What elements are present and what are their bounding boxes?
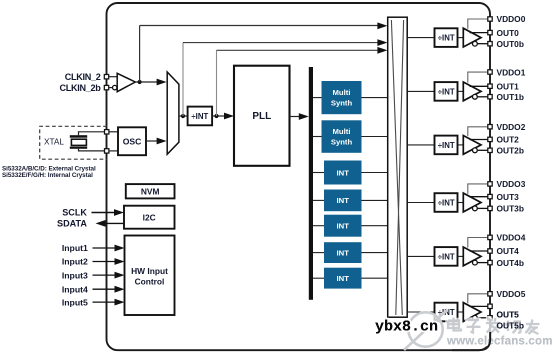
arrowhead into distribution bar <box>299 113 309 120</box>
wire bus bar to Multi Synth 2 <box>313 136 322 138</box>
oscillator OSC box <box>118 127 146 155</box>
wire bus bar to Multi Synth 1 <box>313 97 322 99</box>
wire crossbar to output divider 3 <box>407 202 434 204</box>
pin XB <box>105 149 109 153</box>
svg-text:Input5: Input5 <box>62 297 88 307</box>
svg-text:I2C: I2C <box>143 213 156 223</box>
output divider ÷INT 3 <box>435 193 458 212</box>
wire bus bar to INT divider 4 <box>313 252 324 254</box>
crystal Y1 body <box>71 139 86 145</box>
bubble inverted output OUT4b <box>473 260 478 265</box>
arrowhead Input3 <box>115 272 125 279</box>
watermark elecfans logo slash <box>404 310 448 351</box>
synthesizer block INT divider 3 <box>324 215 362 237</box>
output divider ÷INT 0 <box>435 28 458 47</box>
wire Input5 into HW Input Control <box>93 301 117 303</box>
wire divider 0 to driver <box>458 37 464 39</box>
arrowhead Input4 <box>115 286 125 293</box>
svg-text:INT: INT <box>337 196 350 205</box>
wire Input3 into HW Input Control <box>93 274 117 276</box>
svg-text:ybx8.cn: ybx8.cn <box>375 319 438 336</box>
output driver Q0 triangle <box>463 28 481 47</box>
wire feedback line 2 vertical <box>182 43 184 116</box>
arrowhead into mux input 1 <box>157 79 167 86</box>
pin VDDO2 <box>488 125 492 129</box>
pin OUT1 <box>488 84 492 88</box>
pin OUT4b <box>488 260 492 264</box>
wire bus bar to INT divider 5 <box>313 277 324 279</box>
XTAL dashed enclosure <box>40 126 107 159</box>
NVM box <box>126 184 175 198</box>
wire Multi Synth 2 to crossbar <box>362 136 388 138</box>
svg-text:INT: INT <box>337 222 350 231</box>
crystal Y1 bottom plate <box>70 147 87 149</box>
wire OUT0 <box>470 32 489 34</box>
svg-text:VDDO4: VDDO4 <box>497 233 526 243</box>
watermark elecfans logo circle <box>408 312 442 346</box>
output driver Q1 triangle <box>463 82 481 101</box>
pin VDDO0 <box>488 17 492 21</box>
svg-text:NVM: NVM <box>141 187 160 197</box>
svg-text:HW Input: HW Input <box>131 266 168 276</box>
pin OUT1b <box>488 95 492 99</box>
svg-text:÷INT: ÷INT <box>438 34 455 43</box>
output divider ÷INT 5 <box>435 303 458 322</box>
arrowhead line 2 into crossbar <box>377 39 387 46</box>
wire VDDO4 supply to driver <box>468 238 488 248</box>
crystal Y1 top plate <box>70 135 87 138</box>
wire OUT2 <box>470 139 489 141</box>
wire mux output to divider <box>179 115 188 117</box>
svg-text:XTAL: XTAL <box>44 137 64 146</box>
wire divider output to PLL <box>212 115 226 117</box>
svg-text:÷INT: ÷INT <box>438 252 455 261</box>
junction node divider output <box>214 114 218 118</box>
svg-text:OUT5b: OUT5b <box>497 321 524 331</box>
synthesizer block Multi Synth 2 <box>322 120 362 153</box>
svg-text:OUT1b: OUT1b <box>497 92 524 102</box>
wire bus bar to INT divider 1 <box>313 172 324 174</box>
pin CLKIN_2 <box>104 75 108 79</box>
arrowhead line 3 into crossbar <box>377 47 387 54</box>
arrowhead line 1 into crossbar <box>377 22 387 29</box>
svg-text:VDDO1: VDDO1 <box>497 67 526 77</box>
svg-text:Synth: Synth <box>331 99 353 108</box>
svg-text:VDDO3: VDDO3 <box>497 179 526 189</box>
svg-text:Synth: Synth <box>331 137 353 146</box>
wire Multi Synth 1 to crossbar <box>362 97 388 99</box>
svg-text:CLKIN_2: CLKIN_2 <box>65 72 101 82</box>
bubble inverted output OUT5b <box>473 315 478 320</box>
svg-text:Input2: Input2 <box>62 257 88 267</box>
wire VDDO5 supply to driver <box>468 294 488 303</box>
pin XA <box>105 130 109 134</box>
svg-text:SDATA: SDATA <box>57 219 87 229</box>
arrowhead SDATA <box>96 220 106 227</box>
output driver Q3 triangle <box>463 193 481 212</box>
wire feedback line 3 vertical <box>216 50 218 116</box>
wire crossbar to output divider 4 <box>407 255 434 257</box>
wire Input2 into HW Input Control <box>93 261 117 263</box>
wire crossbar to output divider 0 <box>407 37 434 39</box>
output divider ÷INT 1 <box>435 82 458 101</box>
svg-text:OUT0b: OUT0b <box>497 39 524 49</box>
bubble inverted output OUT1b <box>473 94 478 99</box>
wire INT divider 4 to crossbar <box>362 252 388 254</box>
wire Input1 into HW Input Control <box>93 247 117 249</box>
svg-text:OUT3b: OUT3b <box>497 204 524 214</box>
wire crystal bottom to pin <box>79 149 106 151</box>
crossbar switch matrix <box>388 17 408 317</box>
wire OUT4 <box>470 250 489 252</box>
svg-text:OUT2b: OUT2b <box>497 146 524 156</box>
pin OUT0b <box>488 42 492 46</box>
pin OUT3b <box>488 206 492 210</box>
svg-text:SCLK: SCLK <box>62 208 87 218</box>
svg-text:OUT0: OUT0 <box>497 28 520 38</box>
wire OSC output to mux <box>146 140 158 142</box>
I2C box <box>124 206 175 229</box>
svg-text:VDDO5: VDDO5 <box>497 289 526 299</box>
wire bus bar to INT divider 2 <box>313 199 324 201</box>
bubble inverted output OUT3b <box>473 206 478 211</box>
watermark CJK glyphs halo <box>448 318 540 335</box>
arrowhead Input2 <box>115 258 125 265</box>
pin OUT0 <box>488 30 492 34</box>
synthesizer block INT divider 1 <box>324 161 362 185</box>
arrowhead SCLK <box>114 209 124 216</box>
svg-text:CLKIN_2b: CLKIN_2b <box>59 83 101 93</box>
wire OUT5b <box>477 317 488 319</box>
crossbar diagonal A <box>391 20 402 315</box>
input mux M1 <box>167 72 179 154</box>
bubble inverted output OUT0b <box>473 41 478 46</box>
pin OUT2b <box>488 148 492 152</box>
wire divider 5 to driver <box>458 311 464 313</box>
output driver Q5 triangle <box>463 303 481 322</box>
input buffer U1 inverting-input bubble <box>113 85 117 89</box>
arrowhead into mux input 2 <box>157 138 167 145</box>
wire OUT1b <box>477 96 488 98</box>
svg-text:÷INT: ÷INT <box>438 198 455 207</box>
chip boundary Si5332 <box>107 3 491 350</box>
wire VDDO3 supply to driver <box>468 184 488 194</box>
wire CLKIN_2b to buffer bubble <box>109 87 113 89</box>
wire SCLK into I2C <box>92 212 116 214</box>
svg-text:Multi: Multi <box>333 127 351 136</box>
wire PLL output to distribution bar <box>290 116 301 118</box>
wire feedback line 2 horizontal <box>183 42 380 44</box>
pin VDDO3 <box>488 182 492 186</box>
svg-text:OUT5: OUT5 <box>497 310 520 320</box>
wire OUT4b <box>477 262 488 264</box>
watermark CJK glyphs 电子发烧友 <box>448 318 540 335</box>
svg-text:INT: INT <box>337 274 350 283</box>
svg-text:OUT1: OUT1 <box>497 82 520 92</box>
wire OUT3 <box>470 196 489 198</box>
svg-text:÷INT: ÷INT <box>438 87 455 96</box>
wire buffer output to mux <box>135 81 158 83</box>
input buffer U1 triangle <box>117 73 135 91</box>
svg-text:Control: Control <box>135 277 165 287</box>
svg-text:Input1: Input1 <box>62 243 88 253</box>
arrowhead Input5 <box>115 299 125 306</box>
svg-text:OUT4b: OUT4b <box>497 258 524 268</box>
wire divider 4 to driver <box>458 255 464 257</box>
PLL U3 box <box>234 66 290 166</box>
synthesizer block INT divider 4 <box>324 242 362 263</box>
wire OUT0b <box>477 43 488 45</box>
wire divider 2 to driver <box>458 144 464 146</box>
wire VDDO0 supply to driver <box>468 19 488 29</box>
crossbar diagonal B <box>396 20 404 315</box>
wire pin XB to OSC <box>109 150 118 152</box>
wire CLKIN_2 to buffer <box>109 76 117 78</box>
svg-text:VDDO0: VDDO0 <box>497 14 526 24</box>
svg-text:INT: INT <box>337 248 350 257</box>
svg-text:Si5332E/F/G/H: Internal Crysta: Si5332E/F/G/H: Internal Crystal <box>2 172 93 179</box>
wire Input4 into HW Input Control <box>93 288 117 290</box>
distribution bus bar <box>309 67 313 300</box>
svg-text:PLL: PLL <box>252 111 271 122</box>
wire divider 1 to driver <box>458 90 464 92</box>
arrowhead into PLL <box>224 113 234 120</box>
synthesizer block Multi Synth 1 <box>322 81 362 114</box>
divider U2 ÷INT box <box>188 107 213 126</box>
arrowhead Input1 <box>115 245 125 252</box>
svg-text:÷INT: ÷INT <box>191 112 208 121</box>
junction buffer output node <box>138 80 142 84</box>
HW Input Control box <box>125 236 175 316</box>
wire feedback line 1 horizontal <box>140 25 380 27</box>
output driver Q4 triangle <box>463 247 481 266</box>
svg-text:OUT3: OUT3 <box>497 192 520 202</box>
wire VDDO1 supply to driver <box>468 72 488 83</box>
wire feedback line 1 vertical (buffer to crossbar) <box>139 26 141 83</box>
wire INT divider 3 to crossbar <box>362 225 388 227</box>
svg-text:÷INT: ÷INT <box>438 141 455 150</box>
pin VDDO4 <box>488 235 492 239</box>
synthesizer block INT divider 5 <box>324 268 362 289</box>
wire VDDO2 supply to driver <box>468 127 488 136</box>
pin VDDO5 <box>488 292 492 296</box>
wire INT divider 2 to crossbar <box>362 199 388 201</box>
svg-text:www.elecfans.com: www.elecfans.com <box>446 336 553 348</box>
wire crystal top to pin <box>79 132 106 135</box>
pin OUT5b <box>488 316 492 320</box>
svg-text:Input3: Input3 <box>62 270 88 280</box>
wire crossbar to output divider 2 <box>407 144 434 146</box>
svg-text:INT: INT <box>337 168 350 177</box>
svg-text:Multi: Multi <box>333 88 351 97</box>
synthesizer block INT divider 2 <box>324 190 362 212</box>
wire divider 3 to driver <box>458 202 464 204</box>
wire bus bar to INT divider 3 <box>313 225 324 227</box>
wire crossbar to output divider 5 <box>407 311 434 313</box>
output divider ÷INT 2 <box>435 136 458 155</box>
wire OUT3b <box>477 207 488 209</box>
wire OUT1 <box>470 85 489 87</box>
output driver Q2 triangle <box>463 136 481 155</box>
wire OUT2b <box>477 149 488 151</box>
svg-text:Input4: Input4 <box>62 284 88 294</box>
svg-text:OSC: OSC <box>123 137 142 147</box>
wire SDATA out of I2C <box>104 222 124 224</box>
pin OUT4 <box>488 249 492 253</box>
pin CLKIN_2b <box>104 85 108 89</box>
chip boundary bottom-right corner redraw <box>452 332 490 350</box>
pin VDDO1 <box>488 70 492 74</box>
wire INT divider 5 to crossbar <box>362 277 388 279</box>
wire crossbar to output divider 1 <box>407 90 434 92</box>
svg-text:OUT2: OUT2 <box>497 135 520 145</box>
output divider ÷INT 4 <box>435 247 458 266</box>
junction node mux output <box>181 114 185 118</box>
wire feedback line 3 horizontal <box>217 49 381 51</box>
svg-text:VDDO2: VDDO2 <box>497 122 526 132</box>
pin OUT3 <box>488 194 492 198</box>
wire OUT5 <box>470 305 489 307</box>
bubble inverted output OUT2b <box>473 148 478 153</box>
wire INT divider 1 to crossbar <box>362 172 388 174</box>
svg-text:OUT4: OUT4 <box>497 246 520 256</box>
wire pin XA to OSC <box>109 131 118 133</box>
pin OUT2 <box>488 137 492 141</box>
pin OUT5 <box>488 304 492 308</box>
